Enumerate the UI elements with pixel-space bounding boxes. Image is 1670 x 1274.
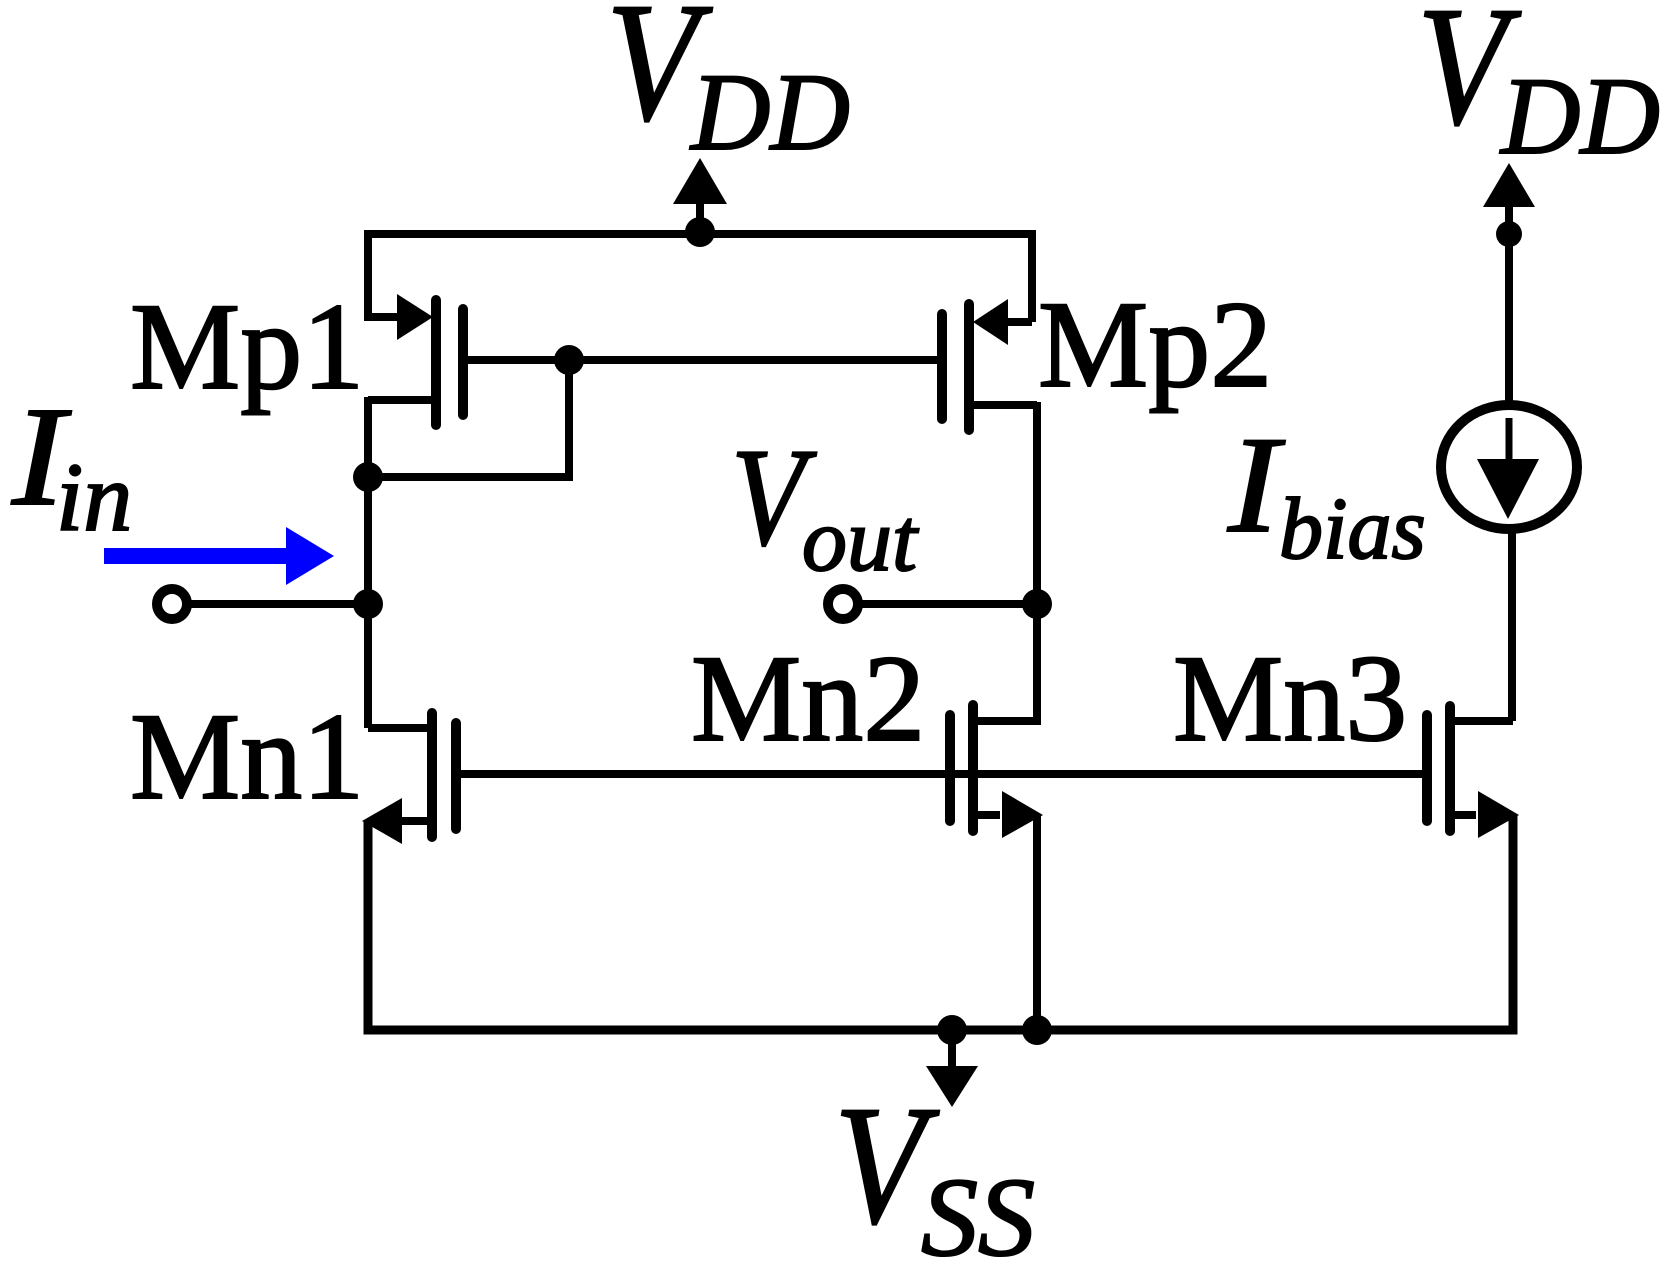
wire: Vout stub <box>862 600 1037 608</box>
wire: current source to VDD (right) <box>1505 236 1513 403</box>
terminal: Vout open circle <box>828 589 858 619</box>
svg-text:Mp2: Mp2 <box>1038 276 1272 413</box>
transistor Mp2 (PMOS) <box>942 299 1037 430</box>
wire: bottom VSS rail with end risers <box>368 815 1513 1030</box>
svg-text:Mn3: Mn3 <box>1173 630 1407 767</box>
node: VSS rail junction right <box>1022 1015 1052 1045</box>
label V_DD (right) <box>1417 0 1660 177</box>
wire: left vertical (Mp1 drain to Mn1 drain) <box>364 397 372 728</box>
wire: Mn3 source down <box>1509 815 1517 1030</box>
label I_in (blue) <box>11 377 132 552</box>
transistor Mp1 (PMOS) <box>364 294 463 425</box>
svg-text:Mp1: Mp1 <box>130 278 364 415</box>
power symbol VSS (arrow down) <box>926 1030 978 1107</box>
node: input node junction <box>353 589 383 619</box>
node: right VDD junction <box>1496 221 1522 247</box>
wire: Mp2 drain vertical to Mn2 drain <box>1033 402 1041 721</box>
wire: gate bus Mp1 to Mp2 <box>463 356 942 364</box>
svg-text:Mn1: Mn1 <box>130 688 364 825</box>
node: Mp1 drain junction <box>353 462 383 492</box>
power symbol VDD (left arrow up) <box>673 158 727 234</box>
node: VDD rail junction <box>685 217 715 247</box>
wire: Mn3 drain up to current source <box>1508 527 1516 721</box>
label I_bias <box>1227 408 1426 578</box>
node: VSS rail junction left <box>937 1015 967 1045</box>
wire: VDD rail with left and right drops <box>368 234 1032 322</box>
svg-text:DD: DD <box>689 51 850 173</box>
node: Mp1 gate junction <box>554 345 584 375</box>
svg-text:out: out <box>802 491 919 590</box>
current arrow I_in (blue) <box>104 527 334 585</box>
svg-text:in: in <box>56 444 132 552</box>
node: Vout junction <box>1022 589 1052 619</box>
svg-text:DD: DD <box>1499 55 1660 177</box>
wire: input stub <box>190 600 368 608</box>
terminal: input open circle <box>157 589 187 619</box>
transistor Mn3 (NMOS) <box>1427 706 1519 838</box>
transistor Mn2 (NMOS) <box>950 705 1043 838</box>
label V_DD (left) <box>606 0 850 173</box>
svg-text:SS: SS <box>921 1156 1035 1274</box>
transistor Mn1 (NMOS) <box>362 713 456 844</box>
label V_SS <box>834 1071 1035 1274</box>
wire: Mn2 source down <box>1033 815 1041 1030</box>
wire: gate bus Mn1 to Mn3 <box>456 770 1427 778</box>
wire: gate-drain tie of Mp1 <box>368 360 569 477</box>
power symbol VDD (right arrow up) <box>1483 163 1535 236</box>
svg-text:I: I <box>1227 408 1286 561</box>
svg-text:bias: bias <box>1279 481 1426 578</box>
label V_out <box>731 420 919 590</box>
wire: Mn2 drain lead <box>973 717 1041 725</box>
current source I_bias <box>1441 405 1577 529</box>
svg-text:Mn2: Mn2 <box>691 630 925 767</box>
